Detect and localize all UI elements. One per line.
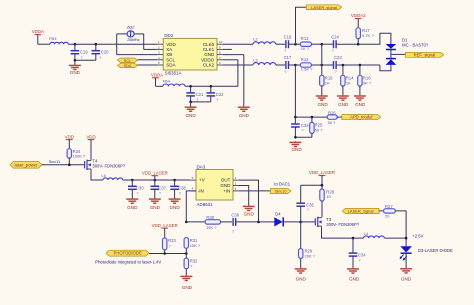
svg-text:R32: R32 [190,258,198,263]
wire [144,34,158,50]
power VDDA [32,29,44,44]
svg-text:?: ? [99,56,101,60]
wire [189,179,191,181]
note [95,259,161,264]
svg-text:C35: C35 [306,202,314,207]
svg-text:SDA: SDA [124,64,132,68]
wire [186,191,196,222]
junction [189,85,192,88]
svg-text:VDD: VDD [65,134,74,139]
svg-text:GND: GND [239,113,250,118]
svg-text:SCL: SCL [124,59,131,63]
svg-text:+V: +V [199,178,205,183]
svg-text:VDD_LASER: VDD_LASER [309,170,335,175]
svg-text:9K ?: 9K ? [363,80,372,85]
svg-text:1K ?: 1K ? [301,46,310,51]
svg-text:?: ? [232,229,234,233]
svg-text:C30: C30 [136,186,144,191]
wire [156,85,238,87]
wire [384,237,406,239]
svg-text:GND: GND [355,102,366,107]
svg-text:LASER_signal: LASER_signal [348,209,374,214]
capacitor C30 [128,180,144,198]
power VDD_LASER [309,170,335,189]
crystal ZQ2 [117,24,144,42]
resistor R16 [358,65,372,95]
wire [294,65,296,117]
resistor R33 [163,238,177,254]
ground [316,95,329,107]
junction [294,136,297,139]
wire [322,228,364,238]
resistor R32 [184,254,198,276]
junction [299,221,302,224]
svg-text:300V- FDN306P?: 300V- FDN306P? [326,222,359,227]
junction [311,116,314,119]
power VDD [86,134,95,160]
svg-text:GND: GND [127,205,138,210]
svg-text:Si5351A: Si5351A [165,71,182,76]
svg-text:D3-LASER DIODE: D3-LASER DIODE [418,248,453,253]
junction [321,43,324,46]
svg-text:CLK2: CLK2 [203,63,215,68]
resistor R26 [327,110,342,125]
wire [223,48,232,50]
svg-text:GND: GND [291,147,302,152]
junction [131,179,134,182]
svg-text:?: ? [169,244,171,248]
power VDD [65,134,74,148]
svg-text:VDD_LASER: VDD_LASER [152,223,178,228]
junction [257,221,260,224]
svg-text:C20: C20 [101,50,109,55]
svg-text:50 ?: 50 ? [315,127,324,132]
svg-text:9.7K ?: 9.7K ? [362,33,374,38]
svg-text:R27: R27 [385,204,393,209]
inductor L5 [101,173,122,180]
note to DAC1 [274,182,290,187]
inductor L4 [364,231,385,238]
svg-text:?: ? [179,192,181,196]
svg-text:laser_power: laser_power [15,162,38,167]
svg-text:GND: GND [338,102,349,107]
capacitor C38 [170,180,186,198]
resistor R27 [379,204,395,218]
capacitor C24 [322,34,358,53]
svg-text:20: 20 [385,213,390,218]
wire [223,64,285,66]
resistor R28 [320,189,335,217]
junction [163,252,166,255]
svg-text:R13: R13 [301,36,309,41]
svg-text:MC - BAS70?: MC - BAS70? [402,43,429,48]
svg-text:REF_signal: REF_signal [414,52,436,57]
wire [123,179,191,181]
capacitor C33 [291,117,309,137]
svg-text:ZQ2: ZQ2 [127,24,136,29]
svg-text:C19: C19 [80,50,88,55]
svg-text:GND: GND [296,276,307,281]
svg-text:Sinc10: Sinc10 [275,190,287,194]
power VDDA2 [351,13,366,28]
capacitor C23 [322,55,380,74]
port LASER_signal [306,5,341,10]
svg-text:GND: GND [185,113,196,118]
ground [354,95,366,107]
svg-text:GND: GND [169,205,180,210]
port PHOTODIODE [106,250,149,256]
svg-text:VDDA: VDDA [32,29,44,34]
svg-text:C34: C34 [358,253,366,258]
svg-text:20K ?: 20K ? [305,253,316,258]
capacitor C21 [186,86,204,102]
svg-text:D4: D4 [275,212,281,217]
resistor R31 [184,238,201,254]
wire [239,186,249,206]
port SCL [117,58,157,63]
port APD_modul [342,115,381,120]
power VDD_LASER [142,170,168,180]
svg-text:L5: L5 [101,173,106,178]
junction [342,64,345,67]
wire [321,44,323,65]
svg-text:GND: GND [182,285,193,290]
junction [68,164,71,167]
resistor R12 [295,57,321,72]
ground [185,102,197,118]
svg-text:C23: C23 [334,55,342,60]
power VDDA [151,72,163,86]
svg-text:?: ? [335,70,337,74]
note +2.5V [412,234,423,239]
junction [74,43,77,46]
svg-text:?: ? [284,49,286,53]
wire [296,7,307,44]
svg-text:GND: GND [349,276,360,281]
svg-text:C38: C38 [178,186,186,191]
svg-text:DD2: DD2 [164,33,173,38]
svg-text:R26: R26 [328,110,336,115]
junction [357,43,360,46]
power VDD_LASER [152,223,178,238]
wire [259,221,275,223]
ground [337,95,349,107]
svg-text:+IN: +IN [223,189,230,194]
ground [169,198,181,210]
svg-text:10: 10 [219,40,223,44]
svg-text:?: ? [301,129,303,133]
port SDA [117,63,157,68]
wire [358,33,391,44]
diode D4 [274,212,300,227]
svg-text:?: ? [216,98,218,102]
svg-text:10: 10 [326,194,331,199]
wire [191,101,211,103]
svg-text:25MHz: 25MHz [127,37,139,42]
svg-text:?: ? [196,98,198,102]
wire [391,53,405,55]
capacitor C18 [284,34,296,53]
junction [210,85,213,88]
svg-text:50 ?: 50 ? [328,120,337,125]
wire [380,65,391,71]
svg-text:DA3: DA3 [197,165,206,170]
junction [95,43,98,46]
svg-text:GND: GND [244,211,255,216]
svg-text:-IN: -IN [198,189,204,194]
svg-text:R33: R33 [168,238,176,243]
junction [294,116,297,119]
svg-text:1K: 1K [346,80,351,85]
svg-text:GND: GND [220,183,231,188]
wire [239,190,271,192]
chip DD2 Si5351A [157,33,222,76]
svg-text:GND: GND [70,70,81,75]
net label Sinc11 [49,159,61,164]
resistor R29 [299,222,316,268]
svg-text:100K ?: 100K ? [73,154,86,159]
capacitor C34 [349,238,367,268]
svg-text:?: ? [307,208,309,212]
ground [295,268,307,282]
port laser_power [10,162,42,169]
svg-text:C36: C36 [231,212,239,217]
resistor R25 [310,117,324,137]
svg-text:300V- FDN306P?: 300V- FDN306P? [92,164,125,169]
ground [289,141,302,152]
svg-text:1.5K ?: 1.5K ? [301,67,313,72]
capacitor C35 [296,185,314,222]
resistor R30 [205,215,232,230]
inductor L2 [253,37,276,45]
port REF_signal [405,52,444,57]
transistor T4 [85,159,126,171]
svg-text:Photodiode integrated to laser: Photodiode integrated to laser-1.4V [95,259,161,264]
ground [69,60,81,75]
svg-text:L2: L2 [253,37,258,42]
svg-text:?: ? [80,56,82,60]
ground [347,268,360,282]
capacitor C20 [92,44,110,60]
resistor R15 [320,65,334,95]
wire [301,184,322,186]
svg-text:VDD_LASER: VDD_LASER [142,170,168,175]
capacitor C17 [284,55,296,74]
svg-text:VDDA2: VDDA2 [351,13,366,18]
diode D1 [386,37,429,65]
svg-text:FB3: FB3 [49,36,57,41]
capacitor C19 [71,44,89,60]
wire [295,136,312,138]
svg-text:C21: C21 [196,92,204,97]
svg-text:VDD: VDD [86,134,95,139]
ferrite bead FB4 [163,79,185,87]
inductor L3 [253,57,276,65]
wire [239,180,259,222]
resistor R14 [341,65,355,95]
svg-text:OUT: OUT [221,178,231,183]
junction [185,221,188,224]
wire [295,116,327,118]
svg-text:?: ? [358,258,360,262]
port LASER_signal [342,208,379,213]
svg-text:C22: C22 [216,92,224,97]
junction [173,179,176,182]
svg-text:C37: C37 [158,186,166,191]
junction [189,101,192,104]
capacitor C36 [231,212,258,233]
wire [42,164,85,166]
svg-text:FB4: FB4 [163,79,171,84]
junction [294,43,297,46]
junction [321,184,324,187]
LED D3 laser diode [400,246,453,268]
svg-text:APD_modul: APD_modul [350,115,372,120]
junction [405,237,408,240]
svg-text:C18: C18 [284,34,292,39]
svg-text:LASER_signal: LASER_signal [311,5,337,10]
svg-text:C17: C17 [284,55,292,60]
wire [117,34,158,55]
op-amp DA3 AD8631 [190,165,238,208]
resistor R17 [356,28,374,44]
wire [223,55,244,107]
svg-text:GND: GND [150,205,161,210]
svg-text:Sinc11: Sinc11 [49,159,61,164]
svg-text:?: ? [136,192,138,196]
ground [180,275,192,290]
ground [238,106,250,118]
wire [186,221,205,223]
svg-text:R12: R12 [301,57,309,62]
svg-text:PHOTODIODE: PHOTODIODE [114,251,142,256]
svg-text:15K ?: 15K ? [190,243,201,248]
wire [301,221,315,223]
svg-text:15K ?: 15K ? [206,225,217,230]
wire [223,60,238,87]
svg-text:VDDA: VDDA [151,72,163,77]
resistor R13 [296,36,322,51]
svg-text:1K: 1K [325,80,330,85]
svg-text:?: ? [284,70,286,74]
svg-text:C24: C24 [331,34,339,39]
wire [38,43,158,45]
capacitor C37 [151,180,167,198]
junction [154,179,157,182]
port Sinc10 [270,189,291,194]
transistor T3 [315,217,359,228]
svg-text:C33: C33 [301,123,309,128]
ground [126,198,138,210]
svg-text:GND: GND [401,276,412,281]
svg-text:GND: GND [317,102,328,107]
svg-text:?: ? [190,265,192,269]
junction [352,237,355,240]
svg-text:R30: R30 [206,215,214,220]
ground [400,268,412,282]
svg-text:R31: R31 [190,238,198,243]
svg-text:SDA: SDA [166,63,175,68]
svg-text:?: ? [332,49,334,53]
svg-text:AD8631: AD8631 [197,202,213,207]
svg-text:+2.5V: +2.5V [412,234,423,239]
ground [243,205,255,216]
junction [359,64,362,67]
wire [75,59,96,61]
wire [223,43,285,45]
junction [74,59,77,62]
resistor R34 [67,149,86,165]
junction [321,64,324,67]
junction [294,64,297,67]
wire [395,211,406,246]
wire [149,253,186,255]
wire [91,171,103,180]
svg-text:?: ? [159,192,161,196]
ground [149,198,161,210]
capacitor C22 [207,86,225,102]
svg-text:L3: L3 [253,57,258,62]
junction [185,252,188,255]
svg-text:to DAC1: to DAC1 [274,182,290,187]
ferrite bead FB3 [49,36,68,44]
